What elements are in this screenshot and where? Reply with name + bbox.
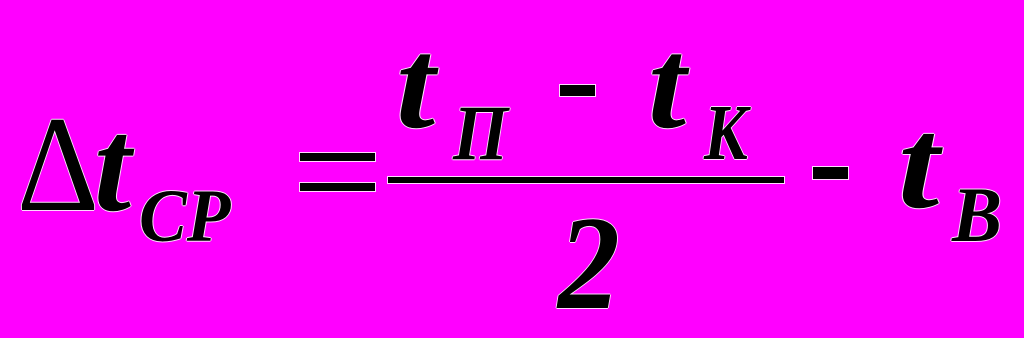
subscript P (Cyrillic Pe) (453, 95, 508, 174)
minus sign (right) (813, 167, 848, 179)
minus sign (numerator) (560, 85, 595, 96)
equals sign top bar (300, 153, 375, 161)
subscript V (Cyrillic Ve) (952, 177, 1002, 256)
numerator t (second) (648, 19, 686, 148)
Greek capital delta (17, 96, 99, 233)
variable t (main) (94, 99, 131, 232)
variable t (right) (898, 100, 939, 230)
subscript K (Cyrillic Ka) (704, 94, 748, 173)
denominator 2 (558, 197, 620, 331)
numerator t (first) (396, 19, 435, 148)
equals sign bottom bar (300, 183, 375, 191)
fraction bar (388, 177, 784, 183)
subscript SR (Cyrillic) (139, 179, 230, 254)
